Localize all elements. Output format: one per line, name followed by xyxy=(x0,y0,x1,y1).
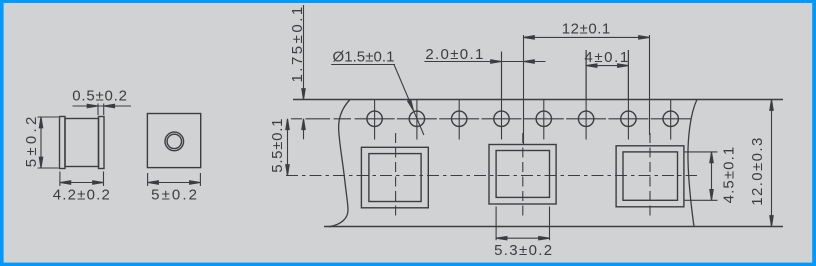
component side view right flange xyxy=(99,117,105,169)
sprocket hole 6 xyxy=(578,50,593,140)
tape left break line xyxy=(329,100,350,227)
pocket 1 vertical centerline xyxy=(395,133,397,220)
dimension 1.75±0.1 (tape edge to hole center) xyxy=(302,5,305,139)
pocket centerline horizontal (dash-dot) xyxy=(286,175,697,177)
svg-text:2.0±0.1: 2.0±0.1 xyxy=(425,46,484,63)
dimension 5.3±0.2 (pocket width) xyxy=(496,207,549,241)
label 1.75±0.1 xyxy=(289,4,306,82)
dimension 4.5±0.1 (pocket depth/height) xyxy=(684,152,718,200)
sprocket hole 1 xyxy=(367,100,382,140)
dimension 0.5±0.2 flange thickness xyxy=(73,104,132,116)
svg-text:4±0.1: 4±0.1 xyxy=(584,49,629,66)
tape right break line xyxy=(688,100,697,227)
label Ø1.5±0.1 xyxy=(332,49,394,66)
svg-text:5±0.2: 5±0.2 xyxy=(23,113,40,167)
label 4.2±0.2 xyxy=(53,186,111,203)
dimension 5±0.2 width (top view) xyxy=(148,173,201,186)
svg-text:4.2±0.2: 4.2±0.2 xyxy=(53,186,111,203)
pocket 3 inner outline xyxy=(623,152,678,200)
pocket 3 outer outline xyxy=(616,146,684,207)
label 5.5±0.1 xyxy=(269,118,286,173)
svg-text:5.5±0.1: 5.5±0.1 xyxy=(269,118,286,173)
dimension 12±0.1 (pocket pitch) xyxy=(524,35,650,145)
sprocket hole 5 xyxy=(536,100,551,140)
sprocket hole 3 xyxy=(452,100,467,140)
sprocket hole 4 xyxy=(494,52,509,140)
svg-text:5.3±0.2: 5.3±0.2 xyxy=(494,242,553,259)
label 2.0±0.1 xyxy=(425,46,484,63)
dimension 12.0±0.3 (tape width) xyxy=(770,100,773,227)
svg-text:0.5±0.2: 0.5±0.2 xyxy=(72,88,128,105)
dimension 4.2±0.2 width (side view) xyxy=(60,172,104,187)
dimension 2.0±0.1 (hole center to pocket center) xyxy=(424,52,545,100)
leader line Ø1.5±0.1 (sprocket hole diameter) xyxy=(331,65,424,136)
label 5±0.2 (top view) xyxy=(151,186,199,203)
tape bottom edge xyxy=(324,226,783,228)
tape top edge xyxy=(293,99,783,101)
pocket 2 vertical centerline xyxy=(522,133,524,220)
top view inner circle xyxy=(167,134,181,148)
label 12±0.1 xyxy=(562,21,611,38)
pocket 3 vertical centerline xyxy=(649,133,651,220)
label 5.3±0.2 xyxy=(494,242,553,259)
component side view left flange xyxy=(60,117,66,169)
pocket 1 inner outline xyxy=(369,154,421,202)
pocket 2 outer outline xyxy=(489,145,556,205)
svg-text:5±0.2: 5±0.2 xyxy=(151,186,199,203)
component top view outline xyxy=(147,114,200,168)
svg-text:12.0±0.3: 12.0±0.3 xyxy=(749,136,766,205)
label 4.5±0.1 xyxy=(720,146,737,204)
svg-text:1.75±0.1: 1.75±0.1 xyxy=(289,4,306,82)
label 12.0±0.3 xyxy=(749,136,766,205)
svg-text:4.5±0.1: 4.5±0.1 xyxy=(720,146,737,204)
sprocket hole 2 xyxy=(409,100,424,140)
sprocket hole 7 xyxy=(621,50,636,140)
pocket 1 outer outline xyxy=(361,147,428,208)
sprocket hole centerline horizontal xyxy=(291,118,691,120)
pocket 2 inner outline xyxy=(496,151,549,198)
svg-text:Ø1.5±0.1: Ø1.5±0.1 xyxy=(332,49,394,66)
label 0.5±0.2 xyxy=(72,88,128,105)
dimension 4±0.1 (hole pitch) xyxy=(586,50,628,99)
dimension 5.5±0.1 (hole center to pocket center) xyxy=(286,119,289,176)
label 4±0.1 xyxy=(584,49,629,66)
sprocket hole 8 xyxy=(663,100,678,140)
label 5±0.2 (side view height) xyxy=(23,113,40,167)
dimension 5±0.2 height (side view) xyxy=(38,117,59,168)
svg-text:12±0.1: 12±0.1 xyxy=(562,21,611,38)
component side view body xyxy=(65,119,99,167)
top view outer circle xyxy=(165,132,184,151)
